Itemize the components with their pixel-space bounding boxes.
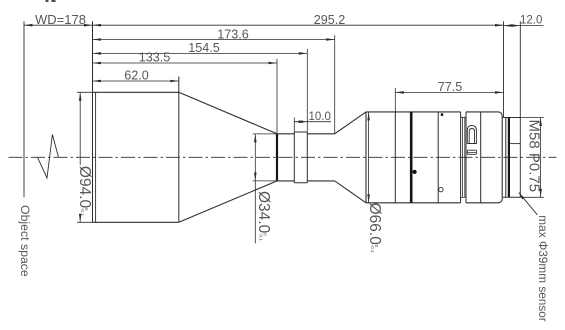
10.0 arrows bbox=[294, 120, 303, 123]
svg-text:12.0: 12.0 bbox=[520, 15, 542, 27]
thread inner lines bbox=[510, 143, 520, 145]
dim 12.0 line + tail bbox=[504, 25, 544, 27]
svg-text:62.0: 62.0 bbox=[124, 69, 149, 83]
svg-text:173.6: 173.6 bbox=[217, 27, 249, 41]
133.5 arrows bbox=[93, 62, 102, 65]
12.0 arrows bbox=[504, 24, 513, 27]
ext line 77.5 left bbox=[394, 88, 396, 112]
leader max sensor bbox=[519, 193, 538, 215]
dim 77.5 line bbox=[395, 91, 503, 93]
front barrel bbox=[93, 92, 179, 222]
173.6 arrows bbox=[93, 38, 102, 41]
77.5 arrows bbox=[395, 91, 404, 94]
front barrel right edge + extension up bbox=[178, 77, 180, 223]
clamp slot on focus ring bbox=[467, 126, 476, 144]
svg-text:133.5: 133.5 bbox=[139, 51, 171, 65]
dim Ø94 line bbox=[79, 92, 81, 222]
M58 arrows bbox=[539, 118, 542, 127]
bold grip band bbox=[410, 112, 413, 203]
Ø66 arrows bbox=[367, 112, 370, 121]
thread right face + ext up bbox=[519, 21, 521, 197]
ext line 10.0 left bbox=[293, 118, 295, 133]
svg-text:Ø34.0: Ø34.0 bbox=[255, 191, 272, 234]
extension line datum (front face) bbox=[92, 21, 94, 222]
svg-text:max Φ39mm sensor: max Φ39mm sensor bbox=[536, 215, 550, 322]
waist left edge (bold) bbox=[276, 134, 278, 181]
ext line 133.5 bbox=[276, 59, 278, 134]
left cone top bbox=[179, 92, 277, 134]
right cone bottom bbox=[335, 181, 366, 203]
dim M58 line bbox=[540, 118, 542, 198]
dim 154.5 line bbox=[93, 52, 308, 54]
leader arrow bbox=[519, 193, 525, 200]
svg-text:295.2: 295.2 bbox=[314, 13, 346, 27]
object plane break symbol bbox=[38, 135, 59, 179]
label Ø34.0 tol bbox=[255, 191, 272, 241]
svg-text:77.5: 77.5 bbox=[438, 80, 463, 94]
ext line 173.6 bbox=[334, 35, 336, 134]
waist ring bbox=[294, 132, 307, 183]
main body outline bbox=[365, 112, 367, 203]
ext line 154.5 / 10.0 right bbox=[306, 49, 308, 132]
set screw dot bbox=[413, 170, 417, 174]
svg-text:10.0: 10.0 bbox=[309, 111, 331, 123]
WD arrows bbox=[24, 24, 33, 27]
svg-text:154.5: 154.5 bbox=[188, 41, 220, 55]
arrowheads bbox=[24, 24, 542, 222]
dim WD=178 line bbox=[24, 24, 93, 26]
M58 thread section bbox=[503, 118, 521, 198]
thread bold line bbox=[508, 118, 510, 198]
filter groove channel bbox=[461, 117, 466, 197]
right cone top bbox=[335, 112, 366, 134]
object plane line bbox=[23, 21, 25, 197]
dim 173.6 line bbox=[93, 39, 335, 41]
dim 10.0 line + tail bbox=[294, 121, 331, 123]
left cone bottom bbox=[179, 181, 277, 222]
ext line 295.2/12.0 left bbox=[503, 21, 505, 117]
label Ø66.0 tol bbox=[366, 203, 383, 253]
dim Ø66 line bbox=[368, 112, 370, 203]
295.2 arrows bbox=[93, 24, 102, 27]
svg-text:M58 P0.75: M58 P0.75 bbox=[525, 120, 542, 193]
svg-text:-0.1: -0.1 bbox=[259, 233, 264, 241]
Ø94 arrows bbox=[79, 92, 82, 101]
svg-text:-0.1: -0.1 bbox=[370, 245, 375, 253]
index mark bbox=[441, 113, 443, 116]
small port circle bbox=[439, 187, 443, 191]
154.5 arrows bbox=[93, 52, 102, 55]
svg-text:Object space: Object space bbox=[18, 205, 32, 277]
svg-text:Ø66.0: Ø66.0 bbox=[366, 203, 383, 246]
svg-text:Ø94.0: Ø94.0 bbox=[76, 166, 93, 209]
label Ø94.0 tol bbox=[76, 166, 93, 216]
62.0 arrows bbox=[93, 80, 102, 83]
svg-text:WD=178: WD=178 bbox=[35, 12, 86, 27]
svg-text:-0.1: -0.1 bbox=[80, 208, 85, 216]
front barrel rim line bbox=[95, 92, 97, 222]
dim 133.5 line bbox=[93, 62, 278, 64]
body ring boundaries bbox=[395, 112, 480, 203]
waist top/bottom edges bbox=[277, 134, 335, 181]
dim Ø34 line bbox=[254, 134, 256, 244]
Ø34 arrows bbox=[254, 134, 257, 143]
dim 295.2 line bbox=[93, 24, 504, 26]
cropped text remnant at top edge bbox=[46, 0, 56, 2]
dim 62.0 line bbox=[93, 80, 179, 82]
centerline (optical axis) bbox=[9, 156, 557, 158]
